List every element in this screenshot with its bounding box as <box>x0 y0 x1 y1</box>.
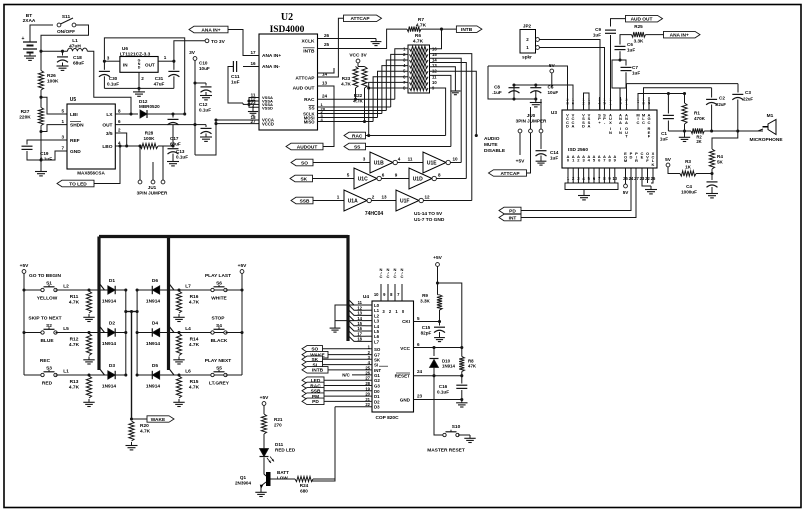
ground U3 right pins <box>650 186 652 190</box>
wire R22 bottom <box>364 88 366 122</box>
svg-text:D: D <box>582 124 585 129</box>
wire mic rail1 from ANA OUT <box>627 84 739 97</box>
flag RAC U4 <box>302 382 324 389</box>
svg-text:15: 15 <box>432 52 437 57</box>
capacitor C18 68uF <box>61 50 64 53</box>
inverter U1A <box>344 190 367 211</box>
svg-text:10uF: 10uF <box>199 66 210 71</box>
inverter U1D <box>382 178 410 180</box>
wire row L5 <box>56 332 109 334</box>
wire D1 cathode <box>115 289 125 291</box>
svg-text:C19: C19 <box>40 151 49 156</box>
wire 5V to VCCA pin <box>552 85 573 110</box>
wire VSS stubs up <box>584 93 590 97</box>
wire 3.3V to TO 3V <box>174 41 205 61</box>
svg-text:R11: R11 <box>70 294 79 300</box>
svg-text:WHITE: WHITE <box>211 296 227 302</box>
svg-text:5K: 5K <box>717 160 724 165</box>
svg-text:AUD OUT: AUD OUT <box>631 16 653 22</box>
svg-text:RAC: RAC <box>304 97 315 103</box>
svg-text:SO: SO <box>301 160 308 166</box>
resnet element 2 <box>410 52 429 57</box>
svg-text:17: 17 <box>250 50 256 55</box>
svg-text:AUDIO: AUDIO <box>484 136 500 142</box>
svg-text:JU1: JU1 <box>148 185 157 190</box>
svg-text:C4: C4 <box>686 184 692 189</box>
svg-text:G2: G2 <box>374 378 380 383</box>
flag SK U4 <box>302 356 323 363</box>
svg-text:MASTER RESET: MASTER RESET <box>427 448 465 454</box>
resistor R28 100K <box>140 143 158 148</box>
ground C15 <box>439 335 441 338</box>
wire SCLK row <box>318 113 382 115</box>
ground R12 <box>88 357 90 360</box>
svg-text:3: 3 <box>61 135 64 140</box>
wire row right L7 <box>159 289 236 291</box>
capacitor C14 1uF <box>540 133 542 149</box>
bus thick vertical left <box>97 237 100 371</box>
flag INTB <box>421 28 456 30</box>
svg-text:Q1: Q1 <box>240 475 247 480</box>
svg-text:K: K <box>652 162 655 167</box>
svg-text:100K: 100K <box>47 79 59 85</box>
svg-text:7: 7 <box>61 146 64 151</box>
IC U2 ISD4000 box <box>259 34 318 130</box>
svg-text:0.1uF: 0.1uF <box>176 154 188 159</box>
ground R20 <box>131 442 133 446</box>
svg-text:INTB: INTB <box>303 48 315 54</box>
svg-text:D1: D1 <box>109 278 115 284</box>
inverter U1C <box>354 168 377 189</box>
svg-text:C3: C3 <box>745 90 751 95</box>
flag ATTCAP top <box>344 15 382 22</box>
wire MOSI row <box>318 117 378 119</box>
svg-text:PLAY NEXT: PLAY NEXT <box>205 358 231 364</box>
wire D6 cathode <box>137 289 152 291</box>
wire LBO pin <box>115 145 140 147</box>
resnet element 1 <box>410 46 429 51</box>
svg-text:2: 2 <box>141 76 144 81</box>
wire XCLK to ground <box>318 38 377 40</box>
flag LED U4 <box>302 377 324 384</box>
svg-text:1uF: 1uF <box>660 137 668 142</box>
flag INT mid <box>499 214 521 221</box>
resistor R3 1K <box>668 167 680 174</box>
svg-text:C16: C16 <box>439 384 448 389</box>
wire RESET to S10 <box>434 376 444 435</box>
svg-text:N/C: N/C <box>342 373 350 378</box>
svg-text:4.7K: 4.7K <box>341 81 351 86</box>
svg-text:1N914: 1N914 <box>442 364 455 369</box>
svg-text:D6: D6 <box>152 278 158 284</box>
resistor R1 470K <box>684 94 686 104</box>
svg-text:3: 3 <box>363 157 366 162</box>
svg-text:VCC 3V: VCC 3V <box>349 53 367 59</box>
wire 3/5 pin <box>115 133 126 146</box>
svg-text:U6: U6 <box>122 46 128 52</box>
svg-text:1uF: 1uF <box>550 155 558 160</box>
regulator U6 LT1121CZ-3.3 <box>120 57 158 73</box>
svg-text:L6: L6 <box>185 369 191 375</box>
svg-text:2K: 2K <box>696 139 701 144</box>
svg-text:SKIP TO NEXT: SKIP TO NEXT <box>28 316 61 322</box>
svg-text:470K: 470K <box>694 116 706 121</box>
svg-text:1uF: 1uF <box>627 47 635 52</box>
resnet element 4 <box>410 63 429 68</box>
resistor R15 4.7K <box>177 373 180 376</box>
wire R6 pin13 net to U1D out <box>430 63 467 179</box>
svg-text:1K: 1K <box>685 164 692 169</box>
svg-text:.22uF: .22uF <box>742 97 753 102</box>
capacitor C17 68uF <box>172 114 174 118</box>
ground R11 <box>88 314 90 317</box>
svg-text:4.7K: 4.7K <box>69 342 80 348</box>
svg-text:R21: R21 <box>274 417 283 422</box>
svg-text:4.7K: 4.7K <box>416 22 427 28</box>
svg-text:6: 6 <box>417 342 420 347</box>
svg-text:10: 10 <box>374 292 379 297</box>
capacitor C11 1uF <box>243 66 259 68</box>
flag SO <box>291 159 313 166</box>
svg-text:MUTE: MUTE <box>484 142 498 148</box>
svg-text:C11: C11 <box>231 74 240 80</box>
ground R1 <box>684 131 686 134</box>
ground R15 <box>178 399 180 402</box>
svg-text:2N3904: 2N3904 <box>235 481 252 486</box>
svg-text:C: C <box>637 120 640 125</box>
svg-text:R1: R1 <box>694 111 700 116</box>
svg-text:C8: C8 <box>494 85 500 90</box>
svg-text:BATT: BATT <box>277 470 289 475</box>
svg-text:VCCD: VCCD <box>262 122 274 127</box>
svg-text:100K: 100K <box>144 136 156 141</box>
svg-text:11: 11 <box>408 157 413 162</box>
wire R6 pin8 stub <box>369 87 408 89</box>
svg-text:R28: R28 <box>145 131 154 136</box>
bus thick vertical mid <box>167 237 170 371</box>
wire RAC pin 24 row <box>318 98 395 100</box>
svg-text:E: E <box>641 155 644 160</box>
ground U6 <box>138 88 140 92</box>
svg-text:MISO: MISO <box>304 119 315 124</box>
wire center stem to WAKE <box>131 312 133 420</box>
svg-text:R24: R24 <box>300 483 309 488</box>
wire R6 pin10 net to SS flag <box>430 75 451 146</box>
svg-text:LOW: LOW <box>277 476 288 481</box>
wire row L1 <box>56 374 109 376</box>
svg-text:C: C <box>648 120 651 125</box>
svg-text:13: 13 <box>432 63 437 68</box>
svg-text:LBO: LBO <box>102 144 112 150</box>
svg-text:L2: L2 <box>63 284 69 290</box>
wire mic rail2 from AGC <box>644 88 712 97</box>
svg-text:ATTCAP: ATTCAP <box>350 16 370 22</box>
svg-text:C15: C15 <box>422 325 431 330</box>
svg-text:R3: R3 <box>685 159 691 164</box>
resistor R27 220K <box>40 97 42 107</box>
svg-text:C6: C6 <box>627 42 633 47</box>
svg-text:27: 27 <box>250 119 256 124</box>
flag WAKE <box>132 418 148 420</box>
svg-text:SS: SS <box>354 144 361 150</box>
svg-text:U3: U3 <box>551 110 557 116</box>
svg-text:.22uF: .22uF <box>715 102 726 107</box>
capacitor C6 1uF <box>620 35 632 45</box>
svg-text:ISD 2560: ISD 2560 <box>568 147 588 153</box>
resistor R2 2K <box>668 130 691 132</box>
svg-text:10: 10 <box>453 157 459 162</box>
svg-text:A: A <box>625 120 628 125</box>
resnet element 7 <box>410 80 429 85</box>
svg-text:13: 13 <box>381 195 387 200</box>
svg-text:OUT: OUT <box>145 63 155 68</box>
wire VCCD stub <box>216 123 259 125</box>
wire U6 IN pin 3 <box>104 60 120 62</box>
svg-text:R9: R9 <box>422 293 428 298</box>
flag ANA IN+ to pin 17 <box>189 26 228 33</box>
capacitor C2 .22uF <box>711 88 713 98</box>
svg-text:U4: U4 <box>363 294 369 300</box>
bus taps left <box>99 283 105 290</box>
svg-text:5: 5 <box>61 109 64 114</box>
svg-text:R26: R26 <box>47 73 56 79</box>
svg-text:M1: M1 <box>767 113 774 119</box>
diode D11 RED LED <box>260 449 269 457</box>
wire VCCA VCCD <box>214 118 217 121</box>
svg-text:+5V: +5V <box>433 255 442 261</box>
wire RESET row <box>414 375 462 377</box>
capacitor C13 0.1uF <box>172 146 174 147</box>
bus thick vertical right <box>346 235 349 341</box>
resistor R20 4.7K <box>129 421 134 441</box>
resistor R14 4.7K <box>177 331 180 334</box>
resistor R11 4.7K <box>87 288 90 291</box>
svg-text:U5: U5 <box>70 97 77 103</box>
svg-text:1N914: 1N914 <box>102 341 116 347</box>
svg-text:3/5: 3/5 <box>106 131 113 137</box>
wire R6 pin14 net to U1E out <box>430 58 462 162</box>
svg-text:13: 13 <box>322 81 328 86</box>
flag PM U4 <box>302 393 324 400</box>
wire MISO row <box>318 121 374 123</box>
wire LED to Q1 collector <box>263 458 265 471</box>
wire D2 cathode <box>115 332 125 334</box>
svg-text:D11: D11 <box>275 442 284 447</box>
capacitor C19 0.1uF <box>27 140 67 145</box>
svg-text:0.1uF: 0.1uF <box>437 390 449 395</box>
wire R6 pin15 net to U1F out <box>430 54 472 201</box>
svg-text:1N914: 1N914 <box>146 299 160 305</box>
svg-text:RED: RED <box>42 381 53 387</box>
svg-text:8: 8 <box>438 173 441 178</box>
svg-text:G3: G3 <box>374 384 380 389</box>
svg-text:C10: C10 <box>199 61 208 66</box>
svg-text:S11: S11 <box>62 14 71 20</box>
svg-text:S10: S10 <box>452 424 461 430</box>
terminal 5V EOM <box>624 184 628 188</box>
wire VCC row <box>414 347 462 349</box>
svg-text:X: X <box>609 120 612 125</box>
svg-text:C9: C9 <box>595 27 601 32</box>
svg-text:A: A <box>572 124 575 129</box>
svg-text:1: 1 <box>61 119 64 124</box>
flag SSB U4 <box>302 388 324 395</box>
svg-text:TO 3V: TO 3V <box>211 39 226 45</box>
wire OUT pin to 3V rail <box>115 124 195 126</box>
svg-text:23: 23 <box>417 394 423 399</box>
svg-text:C: C <box>401 274 404 279</box>
svg-text:1N914: 1N914 <box>102 384 116 390</box>
resistor R9 3.3K <box>437 283 439 295</box>
svg-text:680: 680 <box>300 489 308 494</box>
wire R6 pin16 to INTB net <box>430 29 442 49</box>
svg-text:14: 14 <box>322 72 328 77</box>
svg-text:R25: R25 <box>634 24 643 29</box>
bus taps mid <box>169 283 175 290</box>
svg-text:D5: D5 <box>152 363 158 369</box>
wire R6 pin12 to ground <box>430 67 456 88</box>
svg-text:REF: REF <box>70 138 80 144</box>
wire battery to switch node <box>41 25 89 51</box>
svg-text:PD: PD <box>509 208 516 214</box>
ground C4 <box>711 190 713 194</box>
svg-text:R16: R16 <box>190 294 199 300</box>
svg-text:TO LED: TO LED <box>69 181 87 187</box>
flag SSB <box>291 197 313 204</box>
flag ATTCAP mid <box>489 170 527 176</box>
svg-text:INTB: INTB <box>312 368 324 374</box>
svg-text:SSB: SSB <box>300 198 310 204</box>
svg-text:L5: L5 <box>63 326 69 332</box>
svg-text:INT: INT <box>509 215 517 221</box>
flag PD mid <box>499 207 521 214</box>
capacitor C3 .22uF <box>737 84 739 93</box>
wire CKI node <box>439 310 441 322</box>
IC U4 COP820C box <box>372 301 414 412</box>
svg-text:U1-7 TO GND: U1-7 TO GND <box>414 217 445 223</box>
svg-text:D1: D1 <box>374 394 380 399</box>
svg-text:4.7K: 4.7K <box>189 300 200 306</box>
svg-text:10: 10 <box>432 80 437 85</box>
svg-text:SI: SI <box>374 363 378 368</box>
svg-text:L7: L7 <box>374 339 380 344</box>
wire R6 left pins fanout <box>395 49 408 100</box>
svg-text:82pF: 82pF <box>421 331 432 336</box>
ground R14 <box>178 357 180 360</box>
svg-text:L1: L1 <box>63 369 69 375</box>
svg-text:C14: C14 <box>550 150 559 155</box>
svg-text:4.7K: 4.7K <box>140 429 151 435</box>
flag SO U4 <box>302 346 323 353</box>
capacitor C1 1uF <box>667 94 669 114</box>
svg-text:RESET: RESET <box>395 374 411 379</box>
ground S10 <box>469 435 471 438</box>
svg-text:ANA IN+: ANA IN+ <box>201 27 220 33</box>
svg-text:68uF: 68uF <box>73 61 84 67</box>
svg-text:INTB: INTB <box>461 27 473 33</box>
svg-text:C7: C7 <box>632 65 638 70</box>
svg-text:JP2: JP2 <box>523 24 532 29</box>
svg-text:MICROPHONE: MICROPHONE <box>749 137 783 143</box>
svg-text:3PIN JUMPER: 3PIN JUMPER <box>137 191 168 196</box>
svg-text:XCLK: XCLK <box>301 39 315 45</box>
svg-text:47K: 47K <box>468 364 477 369</box>
flag RAC mid <box>344 132 366 139</box>
ground C18 <box>62 63 64 67</box>
svg-text:MBR0520: MBR0520 <box>139 104 160 109</box>
wire row right L6 <box>159 374 236 376</box>
svg-text:GO TO BEGIN: GO TO BEGIN <box>29 273 61 279</box>
wire R23 bottom to RAC net <box>355 88 357 99</box>
capacitor C31 47uF <box>173 61 175 70</box>
svg-text:D: D <box>138 65 141 69</box>
svg-text:WAKE: WAKE <box>151 417 166 423</box>
wire R27 to SHDN <box>40 126 42 132</box>
svg-text:24: 24 <box>322 94 328 99</box>
capacitor C30 0.1uF <box>103 61 105 70</box>
svg-text:1uF: 1uF <box>231 80 240 86</box>
svg-text:DISABLE: DISABLE <box>484 148 506 154</box>
wire R6 pin11 net <box>430 71 477 135</box>
op-amp U5 MAX856CSA box <box>67 104 115 169</box>
ground XCLK <box>375 39 377 42</box>
svg-text:SO: SO <box>374 347 381 352</box>
svg-text:U1-14 TO 5V: U1-14 TO 5V <box>414 211 443 217</box>
svg-text:BLUE: BLUE <box>40 338 54 344</box>
ground C5 <box>535 99 537 103</box>
inverter U1F <box>372 200 397 202</box>
svg-text:N: N <box>619 130 622 135</box>
svg-text:+5V: +5V <box>516 159 525 165</box>
svg-text:4.7K: 4.7K <box>413 38 424 44</box>
svg-text:U1C: U1C <box>358 177 368 183</box>
svg-text:270: 270 <box>274 423 282 428</box>
flag PD U4 <box>302 398 324 405</box>
ground U5 <box>40 168 42 172</box>
wire JU0 mid to ATTCAP <box>527 133 531 173</box>
wire R6 pin9 net to RAC flag <box>430 88 446 136</box>
wire diode column B <box>136 290 138 375</box>
svg-text:C: C <box>380 274 383 279</box>
svg-text:JU0: JU0 <box>527 113 536 118</box>
resistor R8 47K <box>461 348 463 357</box>
svg-text:R23: R23 <box>342 76 351 81</box>
wire U4 L pin gnd tie <box>335 305 354 321</box>
svg-text:SHDN: SHDN <box>70 123 84 129</box>
svg-text:OUT: OUT <box>102 123 112 129</box>
svg-text:+5V: +5V <box>20 263 29 269</box>
wire mic row3 from MIC pin <box>638 94 685 98</box>
ground battery <box>29 53 31 57</box>
svg-text:R4: R4 <box>717 154 723 159</box>
svg-text:ATTCAP: ATTCAP <box>500 171 520 177</box>
resistor R16 4.7K <box>177 288 180 291</box>
svg-text:C12: C12 <box>199 102 208 107</box>
wire U6 ground rail <box>104 87 173 89</box>
svg-text:+: + <box>22 36 25 42</box>
svg-text:0.1uF: 0.1uF <box>107 81 119 86</box>
svg-text:IN: IN <box>123 63 128 68</box>
ground U4 L ties <box>334 325 336 328</box>
svg-text:26: 26 <box>324 33 330 38</box>
svg-text:3: 3 <box>107 56 110 61</box>
svg-text:5V: 5V <box>623 190 630 195</box>
svg-text:4: 4 <box>398 157 401 162</box>
svg-text:YELLOW: YELLOW <box>37 296 58 302</box>
svg-text:ANA IN+: ANA IN+ <box>262 53 281 59</box>
wire SS pin 1 row <box>318 106 391 108</box>
ground C12 <box>205 134 207 138</box>
